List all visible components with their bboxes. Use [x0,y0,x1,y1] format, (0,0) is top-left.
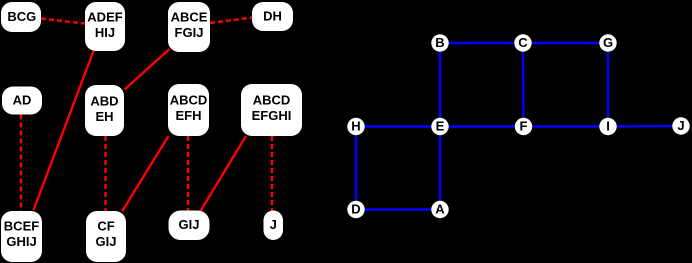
svg-text:EH: EH [95,109,113,124]
node ABCD_EFH [168,84,209,136]
node H [347,118,364,135]
svg-text:DH: DH [263,9,282,24]
svg-text:I: I [606,119,610,134]
svg-text:J: J [270,217,277,232]
edge ABCD_EFGHI--J (dashed) [271,136,273,211]
svg-text:E: E [436,119,445,134]
svg-text:ABD: ABD [90,94,118,109]
svg-text:FGIJ: FGIJ [175,25,204,40]
edge G--I [607,43,609,127]
edge ABCE_FGIJ--ABD_EH (solid) [125,49,170,90]
edge E--F [440,125,524,127]
node F [515,118,532,135]
svg-text:GIJ: GIJ [179,217,200,232]
edge H--D [355,127,357,210]
edge I--J [608,125,681,128]
edge B--C [440,42,523,44]
svg-text:C: C [518,35,528,50]
node ABD_EH [85,85,124,136]
svg-text:F: F [520,119,528,134]
svg-text:H: H [351,119,360,134]
svg-text:B: B [435,35,444,50]
node ADEF_HIJ [85,2,125,51]
edge BCG--ADEF_HIJ (dashed) [41,19,85,24]
svg-text:D: D [351,202,360,217]
node BCEF_GHIJ [1,211,42,262]
node A [431,201,448,218]
node C [514,34,531,51]
svg-text:ABCE: ABCE [171,10,208,25]
svg-text:GHIJ: GHIJ [6,234,36,249]
svg-text:BCEF: BCEF [4,218,39,233]
node ABCE_FGIJ [168,2,210,52]
svg-text:ADEF: ADEF [87,10,122,25]
edge ADEF_HIJ--BCEF_GHIJ (solid) [34,51,94,210]
svg-text:HIJ: HIJ [95,25,115,40]
node DH [252,2,293,31]
node BCG [1,2,41,32]
node J [264,211,284,241]
edge C--F [522,43,525,127]
node GIJ [169,211,210,241]
svg-text:ABCD: ABCD [170,92,208,107]
edge D--A [356,208,440,210]
node G [599,34,616,51]
svg-text:AD: AD [13,93,32,108]
edge H--E [356,125,440,127]
svg-text:G: G [603,35,613,50]
svg-text:EFH: EFH [176,108,202,123]
node J_right [672,117,689,134]
edge F--I [524,125,609,127]
edge B--E [439,43,441,127]
svg-text:GIJ: GIJ [96,234,117,249]
svg-text:EFGHI: EFGHI [252,108,292,123]
node I [599,118,616,135]
node CF_GIJ [86,211,126,262]
node B [431,34,448,51]
edge C--G [523,42,608,44]
node AD [2,87,42,115]
edge AD--BCEF_GHIJ (dashed) [20,115,22,212]
edge ABCD_EFH--GIJ (dashed) [187,136,189,211]
edge E--A [439,127,441,210]
edge ABD_EH--CF_GIJ (dashed) [104,136,106,211]
edge ABCE_FGIJ--DH (dashed) [210,18,253,24]
svg-text:ABCD: ABCD [253,92,291,107]
svg-text:CF: CF [97,218,114,233]
svg-text:A: A [435,202,445,217]
edge ABCD_EFH--CF_GIJ (solid) [122,136,169,212]
node E [431,118,448,135]
edge ABCD_EFGHI--GIJ (solid) [201,136,247,211]
svg-text:BCG: BCG [7,9,36,24]
node D [347,201,364,218]
svg-text:J: J [677,118,684,133]
node ABCD_EFGHI [241,84,302,136]
